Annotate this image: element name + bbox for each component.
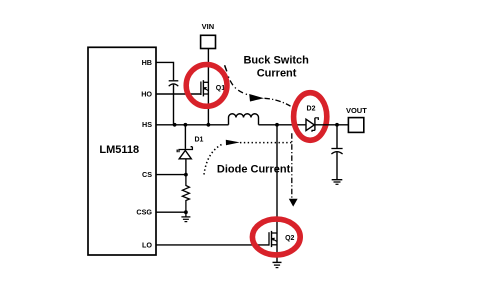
svg-text:Diode Current: Diode Current	[217, 163, 291, 175]
current path buck switch start tick at Q1	[225, 65, 227, 71]
inductor L1	[229, 114, 259, 125]
svg-text:Q2: Q2	[285, 235, 294, 242]
highlight circle around Q1	[186, 65, 227, 107]
wire D1 anode to CS junction	[185, 159, 187, 175]
junction HS / Q1 source	[207, 123, 211, 127]
capacitor CBST bootstrap	[169, 81, 179, 86]
wire output cap to ground	[336, 152, 338, 179]
wire inductor to D2 anode	[259, 124, 307, 126]
current path buck switch dash-dot from arrow to D2	[265, 98, 291, 106]
svg-text:HO: HO	[141, 89, 152, 98]
svg-text:D1: D1	[195, 136, 204, 143]
port VIN terminal square	[201, 35, 216, 48]
transistor Q1 buck MOSFET	[201, 80, 209, 96]
junction switch node / Q2 drain	[275, 123, 279, 127]
ground below output cap	[332, 180, 343, 185]
wire HS rail to D1 cathode	[184, 125, 186, 149]
IC U1 LM5118 body	[88, 47, 156, 255]
junction CS / sense resistor	[184, 173, 188, 177]
svg-text:LM5118: LM5118	[99, 144, 139, 156]
resistor RS current sense	[182, 175, 189, 213]
wire VOUT node down to output cap	[336, 125, 338, 148]
svg-text:VIN: VIN	[202, 22, 215, 31]
port VOUT terminal square	[348, 118, 363, 133]
svg-text:VOUT: VOUT	[346, 106, 367, 115]
svg-text:HB: HB	[142, 58, 152, 67]
junction HS / bootstrap cap	[173, 123, 177, 127]
svg-text:CS: CS	[142, 170, 152, 179]
wire bootstrap cap to HS rail	[173, 85, 175, 125]
highlight circle around Q2	[252, 219, 300, 255]
current path buck switch dash-dot vertical D2 to Q2	[291, 133, 293, 198]
svg-text:D2: D2	[307, 105, 316, 112]
current path diode dotted horizontal	[240, 142, 294, 144]
wire HB pin to bootstrap cap	[156, 62, 174, 80]
svg-text:HS: HS	[142, 120, 152, 129]
svg-text:CSG: CSG	[136, 208, 152, 217]
junction VOUT / output cap	[335, 123, 339, 127]
wire LO pin to Q2 gate	[156, 244, 269, 246]
ground below sense resistor	[181, 212, 190, 221]
svg-text:LO: LO	[142, 240, 152, 249]
svg-text:Current: Current	[257, 68, 297, 80]
wire HO pin to Q1 gate	[156, 93, 201, 95]
wire CSG pin	[156, 211, 186, 213]
wire D2 cathode to VOUT	[315, 124, 348, 126]
arrowhead buck switch current down	[289, 199, 298, 207]
svg-text:Buck Switch: Buck Switch	[243, 55, 309, 67]
ground below Q2 source	[273, 262, 282, 267]
wire VIN to Q1 drain and Q1 source to HS rail	[207, 49, 209, 125]
diode D2 schottky	[306, 118, 318, 132]
current path buck switch dash-dot from Q1 to arrow	[228, 77, 251, 96]
capacitor COUT output	[331, 149, 342, 155]
junction CSG / resistor	[184, 210, 188, 214]
current path diode dotted curve from D1	[204, 144, 222, 174]
wire switch node down to Q2 drain	[276, 125, 278, 262]
transistor Q2 boost MOSFET	[269, 231, 277, 247]
junction HS / D1	[184, 123, 188, 127]
diode D1 schottky	[177, 147, 192, 159]
highlight circle around D2	[294, 93, 327, 141]
arrowhead buck switch current	[249, 94, 264, 102]
wire CS pin	[156, 174, 186, 176]
wire HS pin to inductor	[156, 124, 229, 126]
arrowhead diode current	[226, 140, 240, 146]
